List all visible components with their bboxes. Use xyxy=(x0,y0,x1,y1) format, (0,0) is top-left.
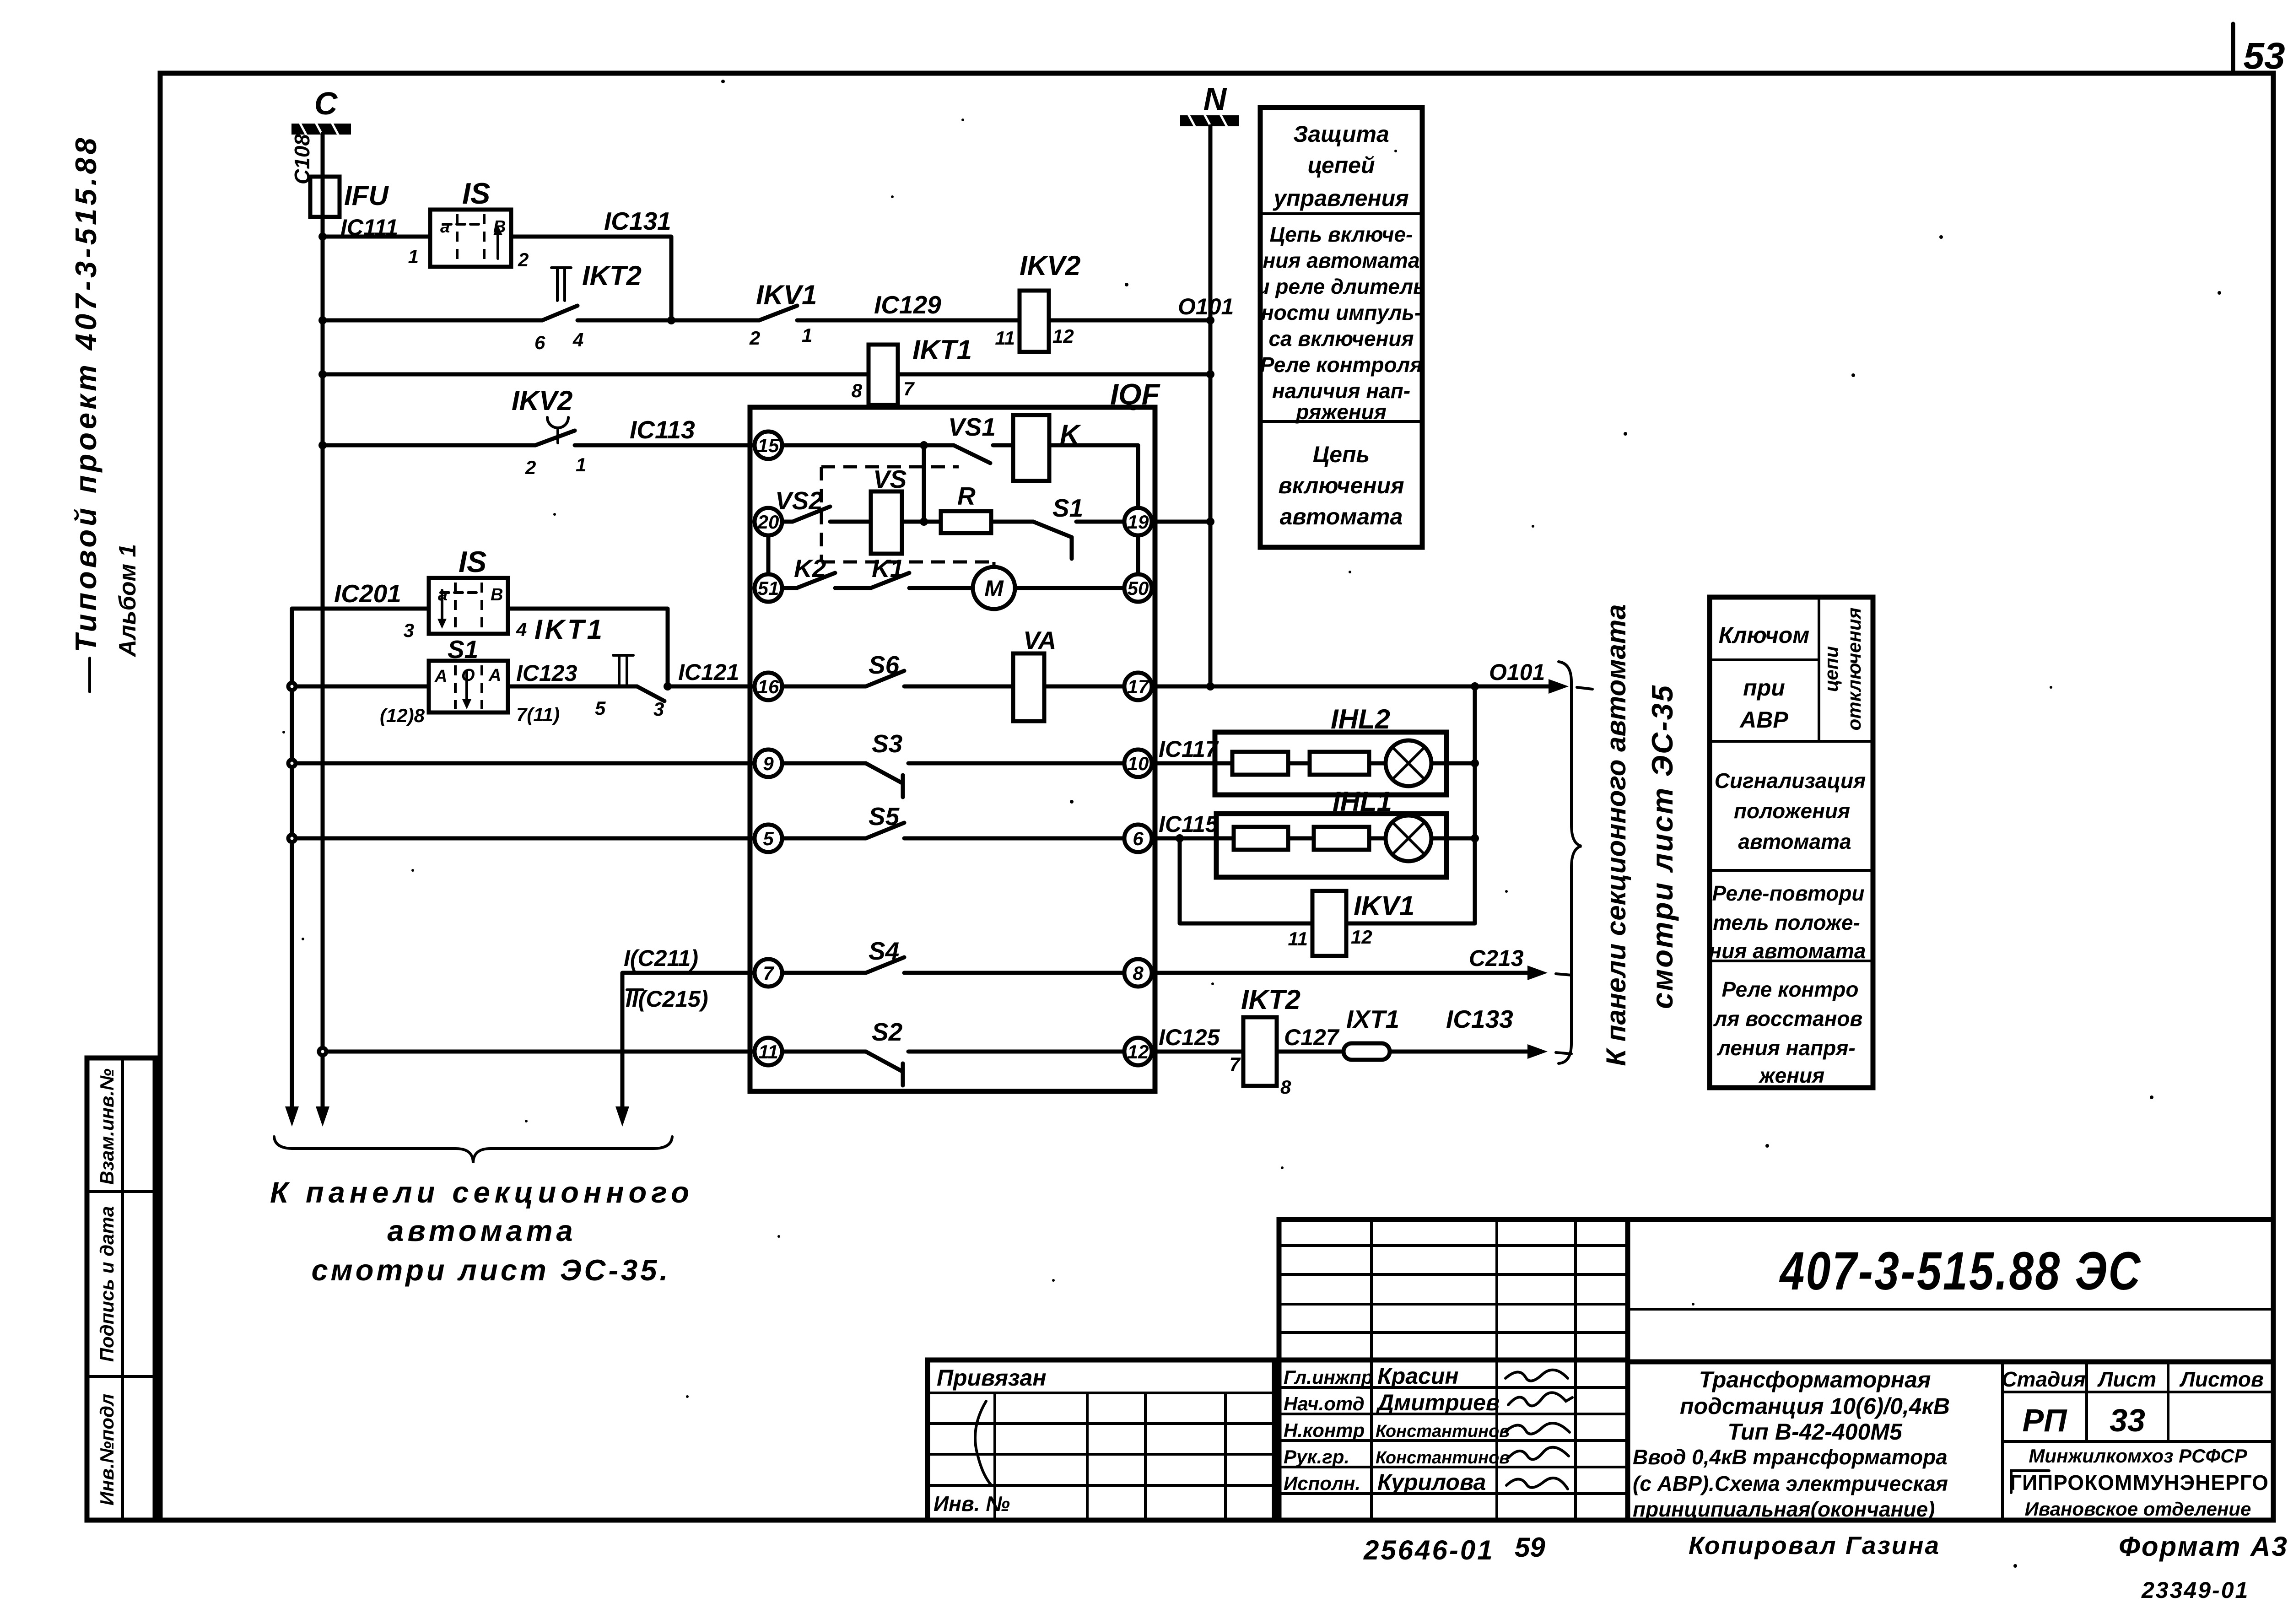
svg-text:Рук.гр.: Рук.гр. xyxy=(1284,1446,1349,1468)
switch IS (section II) xyxy=(429,578,508,634)
svg-text:Копировал Газина: Копировал Газина xyxy=(1689,1531,1940,1559)
svg-text:Альбом 1: Альбом 1 xyxy=(114,544,141,658)
svg-text:Константинов: Константинов xyxy=(1376,1422,1510,1441)
wire row7 inside xyxy=(782,971,866,975)
svg-text:6: 6 xyxy=(1133,828,1144,849)
wire row4 right xyxy=(575,443,755,448)
terminal 20 xyxy=(755,508,782,535)
wire IC201 to drop xyxy=(508,609,668,686)
wire dropper 15-20 xyxy=(922,445,926,522)
svg-text:Курилова: Курилова xyxy=(1377,1469,1486,1495)
svg-text:включения: включения xyxy=(1278,473,1404,498)
wire row2 segment c xyxy=(797,318,1020,323)
wire VA to terminal 17 xyxy=(1044,685,1124,689)
bus C busbar symbol xyxy=(291,123,351,135)
svg-text:(с АВР).Схема электрическая: (с АВР).Схема электрическая xyxy=(1633,1472,1948,1495)
scan noise specks xyxy=(282,80,2221,1568)
svg-text:8: 8 xyxy=(1280,1076,1291,1098)
coil VS xyxy=(871,491,902,554)
svg-text:IHL1: IHL1 xyxy=(1333,786,1392,817)
svg-text:Защита: Защита xyxy=(1293,121,1389,147)
svg-text:5: 5 xyxy=(763,828,774,849)
wire row5 left xyxy=(292,836,755,841)
svg-text:IKV1: IKV1 xyxy=(1354,890,1414,921)
svg-text:Типовой проект 407-3-515.88: Типовой проект 407-3-515.88 xyxy=(69,135,103,652)
svg-text:S6: S6 xyxy=(869,651,900,679)
svg-text:16: 16 xyxy=(758,676,779,697)
IQF enclosure xyxy=(750,407,1155,1091)
svg-text:S5: S5 xyxy=(869,802,900,831)
svg-text:а: а xyxy=(440,217,450,237)
svg-text:Подпись и дата: Подпись и дата xyxy=(96,1206,118,1362)
coil IKT1 xyxy=(869,345,898,405)
svg-text:Дмитриев: Дмитриев xyxy=(1376,1390,1500,1415)
arrow bus C down xyxy=(316,1106,329,1127)
terminal 17 xyxy=(1124,673,1152,700)
svg-text:Ключом: Ключом xyxy=(1719,622,1810,648)
svg-text:2: 2 xyxy=(518,249,529,270)
junction bus N row 19 xyxy=(1206,518,1214,526)
wire row IC201 xyxy=(292,607,429,611)
wire row2 segment b xyxy=(577,318,759,323)
svg-text:2: 2 xyxy=(525,457,536,478)
svg-text:Реле-повтори: Реле-повтори xyxy=(1712,881,1864,905)
svg-text:IC121: IC121 xyxy=(678,659,739,685)
wire row16 inside xyxy=(782,685,866,689)
svg-text:отключения: отключения xyxy=(1843,608,1865,731)
wire motor to terminal 50 xyxy=(1015,586,1124,590)
svg-text:4: 4 xyxy=(572,329,583,351)
brace to section panel (right) xyxy=(1559,662,1581,1063)
svg-text:12: 12 xyxy=(1128,1041,1149,1063)
wire terminal 17 to O101 arrow xyxy=(1152,685,1555,689)
svg-text:Н.контр: Н.контр xyxy=(1284,1419,1365,1441)
terminal 11 xyxy=(755,1038,782,1065)
svg-text:В: В xyxy=(491,585,503,604)
contact VS2 xyxy=(782,507,830,522)
wire IXT1 to IC133 arrow xyxy=(1390,1050,1534,1054)
fuse link IXT1 xyxy=(1344,1043,1390,1060)
svg-text:7(11): 7(11) xyxy=(516,704,560,725)
svg-text:жения: жения xyxy=(1758,1063,1824,1087)
svg-text:ности импуль-: ности импуль- xyxy=(1261,301,1421,324)
terminal 15 xyxy=(755,432,782,459)
contact IKT1 (time delay) xyxy=(613,655,664,701)
svg-text:Привязан: Привязан xyxy=(937,1365,1047,1391)
svg-text:тель положе-: тель положе- xyxy=(1713,911,1860,934)
svg-text:25646-01: 25646-01 xyxy=(1363,1535,1495,1565)
tap on feeder II row9 xyxy=(288,760,296,767)
arrow O101 xyxy=(1549,679,1569,694)
svg-text:33: 33 xyxy=(2110,1403,2145,1438)
svg-text:VS: VS xyxy=(873,465,907,493)
svg-text:Инв.№подл: Инв.№подл xyxy=(96,1394,118,1505)
svg-text:S1: S1 xyxy=(1052,494,1083,522)
svg-text:К панели секционного автомата: К панели секционного автомата xyxy=(1601,604,1631,1066)
svg-text:7: 7 xyxy=(763,962,774,984)
wire: bus N vertical xyxy=(1209,126,1213,686)
svg-text:11: 11 xyxy=(758,1041,778,1063)
svg-text:ния автомата: ния автомата xyxy=(1709,939,1866,963)
terminal 7 xyxy=(755,959,782,987)
contact S4 xyxy=(866,957,904,973)
svg-text:смотри лист ЭС-35.: смотри лист ЭС-35. xyxy=(311,1253,670,1287)
wire row2 segment d xyxy=(1049,318,1210,323)
contact K2 xyxy=(782,573,835,588)
wire VS2 to VS coil xyxy=(830,520,871,524)
svg-text:19: 19 xyxy=(1128,511,1149,533)
svg-text:управления: управления xyxy=(1272,185,1408,211)
svg-text:IC129: IC129 xyxy=(874,291,941,319)
svg-text:К панели секционного: К панели секционного xyxy=(270,1176,694,1209)
wire row5 inside xyxy=(782,836,866,841)
wire row11 inside xyxy=(782,1050,866,1054)
svg-text:4: 4 xyxy=(516,619,527,640)
svg-text:Красин: Красин xyxy=(1377,1363,1459,1389)
arrow IC133 xyxy=(1527,1044,1548,1059)
terminal 50 xyxy=(1124,574,1152,602)
svg-text:IC113: IC113 xyxy=(630,415,695,444)
wire terminal 6 to lamp box xyxy=(1152,836,1234,841)
junction vertical row10 xyxy=(1471,759,1479,767)
svg-text:15: 15 xyxy=(758,435,779,456)
svg-text:Формат А3: Формат А3 xyxy=(2119,1531,2288,1562)
arrow C213 xyxy=(1527,966,1548,980)
svg-text:IC123: IC123 xyxy=(516,660,577,686)
junction row15/dropper xyxy=(920,441,928,449)
svg-text:C213: C213 xyxy=(1469,945,1524,971)
svg-text:ля восстанов: ля восстанов xyxy=(1713,1007,1863,1031)
svg-text:Тип В-42-400М5: Тип В-42-400М5 xyxy=(1727,1419,1903,1445)
coil K xyxy=(1013,415,1049,481)
svg-text:12: 12 xyxy=(1052,325,1074,347)
wire S3 to terminal 10 xyxy=(908,761,1124,766)
svg-text:IHL2: IHL2 xyxy=(1331,704,1390,734)
svg-text:А: А xyxy=(434,667,447,686)
wire row9 left xyxy=(292,761,755,766)
svg-text:IFU: IFU xyxy=(344,180,389,211)
svg-text:положения: положения xyxy=(1734,799,1850,823)
svg-text:принципиальная(окончание): принципиальная(окончание) xyxy=(1633,1497,1935,1521)
SECTION: note table (ключам при АВР) xyxy=(1709,597,1873,1088)
contact IKT2 (time delay, NO) xyxy=(542,268,577,320)
svg-text:VS2: VS2 xyxy=(775,486,823,515)
wire row11 left xyxy=(323,1050,755,1054)
contact K1 xyxy=(871,573,909,588)
svg-text:Нач.отд: Нач.отд xyxy=(1284,1393,1365,1414)
wire row4 left xyxy=(323,443,535,448)
fuse IFU xyxy=(310,177,340,217)
tap on feeder II row16 xyxy=(288,683,296,690)
svg-text:автомата: автомата xyxy=(1738,830,1851,853)
svg-text:IQF: IQF xyxy=(1110,378,1161,411)
junction bus N row3 xyxy=(1206,370,1214,378)
svg-text:S1: S1 xyxy=(448,635,478,664)
arrow feeder I down xyxy=(615,1106,629,1127)
wire S1 to terminal 19 xyxy=(1076,520,1124,524)
svg-text:5: 5 xyxy=(595,697,606,719)
svg-text:VA: VA xyxy=(1023,626,1056,654)
svg-text:Ввод 0,4кВ трансформатора: Ввод 0,4кВ трансформатора xyxy=(1633,1445,1948,1469)
svg-text:11: 11 xyxy=(995,327,1015,349)
svg-text:1: 1 xyxy=(576,454,586,475)
SECTION: title block xyxy=(1279,1219,1628,1520)
svg-text:8: 8 xyxy=(1133,962,1144,984)
wire terminal 12 to IKT2 xyxy=(1152,1050,1243,1054)
wire row3 right xyxy=(898,372,1210,377)
contact S2 xyxy=(866,1052,903,1085)
wire: vertical feeder I(C211) xyxy=(622,973,755,1113)
wire VS1 to K xyxy=(993,443,1013,448)
SECTION: note table (защита цепей управления) xyxy=(1257,108,1425,547)
terminal 51 xyxy=(755,574,782,602)
svg-text:407-3-515.88 ЭС: 407-3-515.88 ЭС xyxy=(1779,1241,2142,1301)
terminal 8 xyxy=(1124,959,1152,987)
central signature table xyxy=(1279,1219,1628,1520)
wire: bus C vertical xyxy=(321,134,325,1113)
terminal 12 xyxy=(1124,1038,1152,1065)
junction vertical top xyxy=(1471,682,1479,691)
svg-text:Исполн.: Исполн. xyxy=(1284,1473,1360,1494)
svg-text:IS: IS xyxy=(459,545,486,578)
wire K1 to motor xyxy=(909,586,973,590)
terminal 9 xyxy=(755,750,782,777)
svg-text:Реле контроля: Реле контроля xyxy=(1260,353,1423,377)
tap on bus C row11 xyxy=(319,1048,326,1055)
svg-text:IXT1: IXT1 xyxy=(1346,1005,1399,1033)
svg-text:ния автомата: ния автомата xyxy=(1263,248,1419,272)
svg-text:IS: IS xyxy=(462,177,490,210)
junction bus C row3 xyxy=(318,370,327,378)
svg-text:R: R xyxy=(957,482,976,510)
wire row1 right + drop IC131 xyxy=(511,237,671,320)
wire IHL1 to vertical xyxy=(1431,836,1475,841)
svg-text:РП: РП xyxy=(2022,1403,2067,1438)
contact IKV1 (NO) xyxy=(759,306,797,320)
junction on bus C xyxy=(318,232,327,241)
bus N busbar symbol xyxy=(1180,114,1239,127)
svg-text:наличия нап-: наличия нап- xyxy=(1272,379,1410,403)
junction IC131/row2 xyxy=(667,316,675,324)
wire row9 inside xyxy=(782,761,866,766)
attachment table (Привязан) xyxy=(928,1360,1274,1520)
svg-text:50: 50 xyxy=(1128,577,1149,599)
svg-text:са включения: са включения xyxy=(1268,327,1414,351)
switch IS (top) xyxy=(430,210,511,267)
svg-text:Цепь: Цепь xyxy=(1313,442,1370,467)
svg-text:Ивановское отделение: Ивановское отделение xyxy=(2025,1498,2251,1520)
contact S1 xyxy=(1033,522,1072,559)
wire K to terminal 19 xyxy=(1049,445,1138,508)
svg-text:Трансформаторная: Трансформаторная xyxy=(1699,1367,1931,1392)
brace to section panel xyxy=(274,1137,672,1163)
svg-text:цепи: цепи xyxy=(1820,646,1842,692)
contact S6 xyxy=(866,671,904,686)
svg-text:автомата: автомата xyxy=(1280,504,1403,529)
wire VS to R xyxy=(902,520,941,524)
svg-text:8: 8 xyxy=(852,380,863,401)
wire row15 inside xyxy=(782,443,954,448)
svg-text:ГИПРОКОММУНЭНЕРГО: ГИПРОКОММУНЭНЕРГО xyxy=(2010,1471,2269,1495)
svg-text:М: М xyxy=(984,576,1004,601)
underline tick xyxy=(88,658,91,692)
svg-text:Взам.инв.№: Взам.инв.№ xyxy=(96,1068,118,1185)
svg-text:51: 51 xyxy=(758,577,779,599)
lamp unit IHL1 xyxy=(1216,814,1446,877)
wire S4 to terminal 8 xyxy=(904,971,1124,975)
svg-text:А: А xyxy=(488,666,501,685)
svg-text:(12)8: (12)8 xyxy=(380,705,425,726)
svg-text:3: 3 xyxy=(653,698,664,720)
wire: vertical feeder II xyxy=(290,609,294,1113)
svg-text:смотри лист ЭС-35: смотри лист ЭС-35 xyxy=(1646,684,1679,1009)
svg-text:C127: C127 xyxy=(1284,1025,1340,1050)
wire row16 mid xyxy=(508,685,637,689)
wire terminal 8 to C213 arrow xyxy=(1152,971,1534,975)
wire IKT2 to IXT1 xyxy=(1277,1050,1344,1054)
svg-text:Сигнализация: Сигнализация xyxy=(1715,769,1866,793)
svg-text:O101: O101 xyxy=(1489,659,1545,685)
svg-text:IC131: IC131 xyxy=(604,207,671,235)
svg-text:10: 10 xyxy=(1128,753,1149,774)
terminal 19 xyxy=(1124,508,1152,535)
junction bus C row4 xyxy=(318,441,327,449)
svg-text:при: при xyxy=(1743,675,1785,701)
coil IKV1 xyxy=(1312,891,1346,956)
svg-text:IKV1: IKV1 xyxy=(756,280,817,310)
svg-text:IKT1: IKT1 xyxy=(534,614,605,645)
svg-text:Лист: Лист xyxy=(2097,1367,2156,1391)
svg-text:1: 1 xyxy=(408,246,419,267)
project number cell xyxy=(1628,1217,2273,1222)
contact IKV2 (time delayed release) xyxy=(535,417,575,445)
coil IKT2 xyxy=(1243,1017,1277,1086)
wire IKV1 branch right xyxy=(1346,922,1475,926)
contact VS1 xyxy=(954,445,990,463)
svg-text:IC117: IC117 xyxy=(1159,736,1219,762)
svg-text:K1: K1 xyxy=(872,554,904,583)
wire IHL2 to vertical xyxy=(1431,761,1475,766)
svg-text:53: 53 xyxy=(2243,35,2285,77)
svg-text:IKV2: IKV2 xyxy=(1020,250,1080,281)
mechanical link VS (dashed) xyxy=(821,467,994,567)
svg-text:11: 11 xyxy=(1288,928,1308,950)
svg-text:ления напря-: ления напря- xyxy=(1716,1036,1855,1060)
resistor R xyxy=(941,511,991,533)
svg-text:Гл.инжпр: Гл.инжпр xyxy=(1284,1366,1373,1388)
svg-text:цепей: цепей xyxy=(1307,152,1375,178)
motor M xyxy=(973,567,1015,609)
junction bus C row2 xyxy=(318,316,327,324)
wire S2 to terminal 12 xyxy=(908,1050,1124,1054)
object name cell xyxy=(2001,1362,2004,1520)
switch S1 (selector) xyxy=(429,661,508,712)
terminal 6 xyxy=(1124,825,1152,852)
svg-text:Цепь включе-: Цепь включе- xyxy=(1270,222,1413,246)
svg-text:IC133: IC133 xyxy=(1446,1005,1513,1033)
svg-text:S3: S3 xyxy=(872,729,902,758)
svg-text:Минжилкомхоз РСФСР: Минжилкомхоз РСФСР xyxy=(2029,1445,2247,1467)
tap on feeder II row5 xyxy=(288,835,296,842)
svg-text:IC115: IC115 xyxy=(1159,811,1219,837)
arrow feeder II down xyxy=(285,1106,299,1127)
wire S6 to VA xyxy=(904,685,1013,689)
svg-text:Константинов: Константинов xyxy=(1376,1448,1510,1468)
svg-text:2: 2 xyxy=(749,327,760,349)
svg-text:ряжения: ряжения xyxy=(1295,400,1387,424)
contact S3 xyxy=(866,763,903,797)
sheet number tick xyxy=(2231,24,2235,73)
svg-text:IKT1: IKT1 xyxy=(912,335,972,365)
svg-text:3: 3 xyxy=(404,620,414,641)
svg-text:подстанция 10(6)/0,4кВ: подстанция 10(6)/0,4кВ xyxy=(1680,1393,1950,1419)
coil VA xyxy=(1013,653,1044,721)
terminal 10 xyxy=(1124,750,1152,777)
svg-text:Листов: Листов xyxy=(2179,1367,2263,1391)
svg-text:23349-01: 23349-01 xyxy=(2141,1577,2249,1603)
svg-text:7: 7 xyxy=(1230,1053,1241,1075)
wire IKV1 branch left xyxy=(1180,838,1312,923)
svg-text:Реле контро: Реле контро xyxy=(1722,977,1859,1001)
svg-text:S4: S4 xyxy=(869,937,899,965)
stage/sheet columns xyxy=(2085,1362,2088,1441)
terminal 16 xyxy=(755,673,782,700)
svg-text:Стадия: Стадия xyxy=(2002,1367,2085,1391)
svg-text:6: 6 xyxy=(534,332,545,353)
terminal 5 xyxy=(755,825,782,852)
wire 20-51 link xyxy=(766,535,771,574)
svg-text:1: 1 xyxy=(802,324,812,346)
wire row16 to terminal 16 xyxy=(668,685,755,689)
wire row16 left xyxy=(292,685,429,689)
svg-text:7: 7 xyxy=(903,378,915,399)
svg-text:O101: O101 xyxy=(1178,294,1234,319)
svg-text:IKV2: IKV2 xyxy=(512,385,572,416)
svg-text:IC201: IC201 xyxy=(334,579,401,608)
svg-text:K2: K2 xyxy=(794,554,826,583)
wire row3 left xyxy=(323,372,869,377)
junction row16 xyxy=(664,682,672,691)
junction bus N row2 xyxy=(1206,316,1214,324)
svg-text:IKT2: IKT2 xyxy=(1241,984,1300,1015)
junction vertical row6 xyxy=(1471,834,1479,842)
SECTION: left inventory stamp column xyxy=(87,1058,155,1520)
wire terminal 19 to bus N xyxy=(1152,520,1210,524)
svg-text:59: 59 xyxy=(1515,1532,1545,1563)
contact S5 xyxy=(866,823,904,838)
svg-text:C: C xyxy=(314,86,338,121)
svg-text:IC125: IC125 xyxy=(1159,1025,1220,1050)
svg-text:17: 17 xyxy=(1128,676,1149,697)
svg-text:Инв. №: Инв. № xyxy=(934,1492,1010,1516)
lamp unit IHL2 xyxy=(1215,732,1446,795)
svg-text:12: 12 xyxy=(1351,926,1372,948)
wire row2 segment a xyxy=(323,318,542,323)
svg-text:VS1: VS1 xyxy=(948,413,996,441)
svg-text:IKT2: IKT2 xyxy=(582,260,642,291)
svg-text:9: 9 xyxy=(763,753,774,774)
svg-text:АВР: АВР xyxy=(1739,707,1788,733)
junction bus N row17 xyxy=(1206,682,1214,691)
svg-text:автомата: автомата xyxy=(387,1214,576,1247)
svg-text:N: N xyxy=(1203,81,1227,117)
wire 19-50 link xyxy=(1136,535,1140,574)
wire K2-K1 xyxy=(835,586,871,590)
svg-text:и реле длитель: и реле длитель xyxy=(1257,275,1425,298)
wire S5 to terminal 6 xyxy=(904,836,1124,841)
wire terminal 10 to lamp box xyxy=(1152,761,1232,766)
coil IKV2 xyxy=(1020,291,1049,352)
